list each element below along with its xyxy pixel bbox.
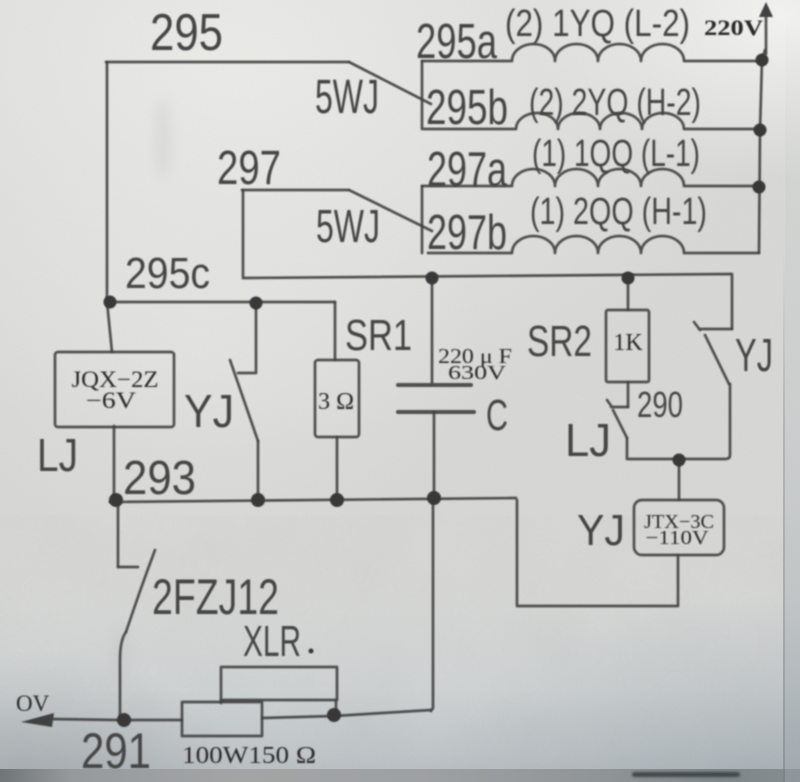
resistor SR2 1K box [606, 310, 649, 382]
coil (2) 1YQ (L-2) row 295a [422, 44, 759, 61]
wire YJ left bottom lead [257, 441, 260, 497]
switch YJ left: fixed contact [238, 303, 256, 373]
switch 2FZJ12: upper lead [117, 503, 120, 567]
wire 297 left vertical [242, 190, 245, 276]
resistor XLR box [221, 667, 337, 700]
node 293 rail at JQX lead [109, 493, 123, 507]
arrow 220V shaft [765, 14, 768, 54]
wire JQX box bottom lead [113, 426, 116, 500]
wire coil-section bottom rail [243, 274, 732, 329]
wire 295 top horizontal [106, 61, 349, 64]
node 293 rail at capacitor lead [427, 491, 441, 505]
wire JTX-3C top lead [678, 460, 681, 500]
capacitor C bottom plate [398, 410, 474, 414]
arrow 0V (left) [50, 719, 118, 720]
switch LJ: blade [613, 410, 627, 438]
wire 295c horizontal [107, 301, 335, 304]
relay coil LJ box JQX-2Z [55, 352, 174, 427]
wire YJ right bottom lead [681, 384, 730, 459]
node right rail row3 [753, 181, 766, 194]
capacitor C top lead [431, 278, 434, 383]
node 291 rail at XLR lead [327, 708, 341, 722]
switch 2FZJ12: contact hook [118, 566, 138, 569]
right paper edge [783, 250, 785, 782]
switch YJ right: fixed contact tick [694, 322, 732, 330]
wire SR2 top lead [627, 278, 630, 310]
wire JTX-3C bottom return loop [517, 500, 678, 606]
switch 2FZJ12: blade [126, 550, 155, 632]
resistor 100W150ohm box [182, 702, 262, 736]
wire left vertical bus (295 down to relay coil LJ) [107, 62, 112, 352]
node capacitor top junction [426, 272, 439, 285]
node 293 rail at SR1 lead [330, 493, 344, 507]
bottom photo edge band [0, 769, 800, 782]
wire SR1 bottom lead [336, 437, 339, 497]
capacitor C bottom lead [433, 412, 436, 494]
wire 2FZJ12 bottom lead [120, 632, 126, 717]
wire 291 rail right of resistor [262, 710, 431, 718]
node right rail row2 [754, 124, 767, 137]
switch YJ right: blade [705, 335, 729, 384]
wire 297 horizontal [242, 189, 349, 192]
resistor SR1 3 ohm box [315, 360, 359, 437]
node 295c left junction [104, 296, 117, 309]
wire XLR left lead [220, 700, 223, 703]
switch 5WJ upper blade (295 to 295b) [349, 62, 431, 104]
node 295c YJ branch [250, 297, 263, 310]
coil (1) 2QQ (H-1) row 297b [428, 236, 759, 253]
node 291 rail at 2FZJ12 [117, 713, 131, 727]
switch LJ: fixed contact tick [607, 400, 628, 407]
dot after XLR label [309, 649, 314, 654]
wire 293 rail [110, 498, 516, 502]
switch 5WJ lower blade (297 to 297b) [349, 190, 432, 231]
wire capacitor branch down to 291 rail [431, 499, 433, 711]
wire LJ bottom lead to node 290 [627, 438, 679, 459]
wire stub joining rows 295a/295b [421, 61, 424, 129]
node SR2 top junction [622, 272, 635, 285]
wire 220V right rail [759, 50, 765, 253]
relay coil YJ box JTX-3C [634, 500, 724, 555]
wire XLR right lead [335, 700, 338, 714]
wire 291 rail left of resistor [118, 719, 182, 722]
node 293 rail at YJ lead [251, 493, 265, 507]
wire stub joining rows 297a/297b [421, 186, 424, 253]
node right rail row1 [756, 54, 769, 67]
switch YJ left: blade [230, 360, 258, 441]
wire 1K bottom lead [627, 382, 630, 407]
coil (2) 2YQ (H-2) row 295b [424, 113, 755, 129]
arrow 220V head [759, 2, 773, 17]
capacitor C top plate [398, 383, 471, 387]
wire SR1 top lead [334, 302, 337, 360]
node 290 junction [673, 454, 686, 467]
coil (1) 1QQ (L-1) row 297a [422, 169, 755, 186]
